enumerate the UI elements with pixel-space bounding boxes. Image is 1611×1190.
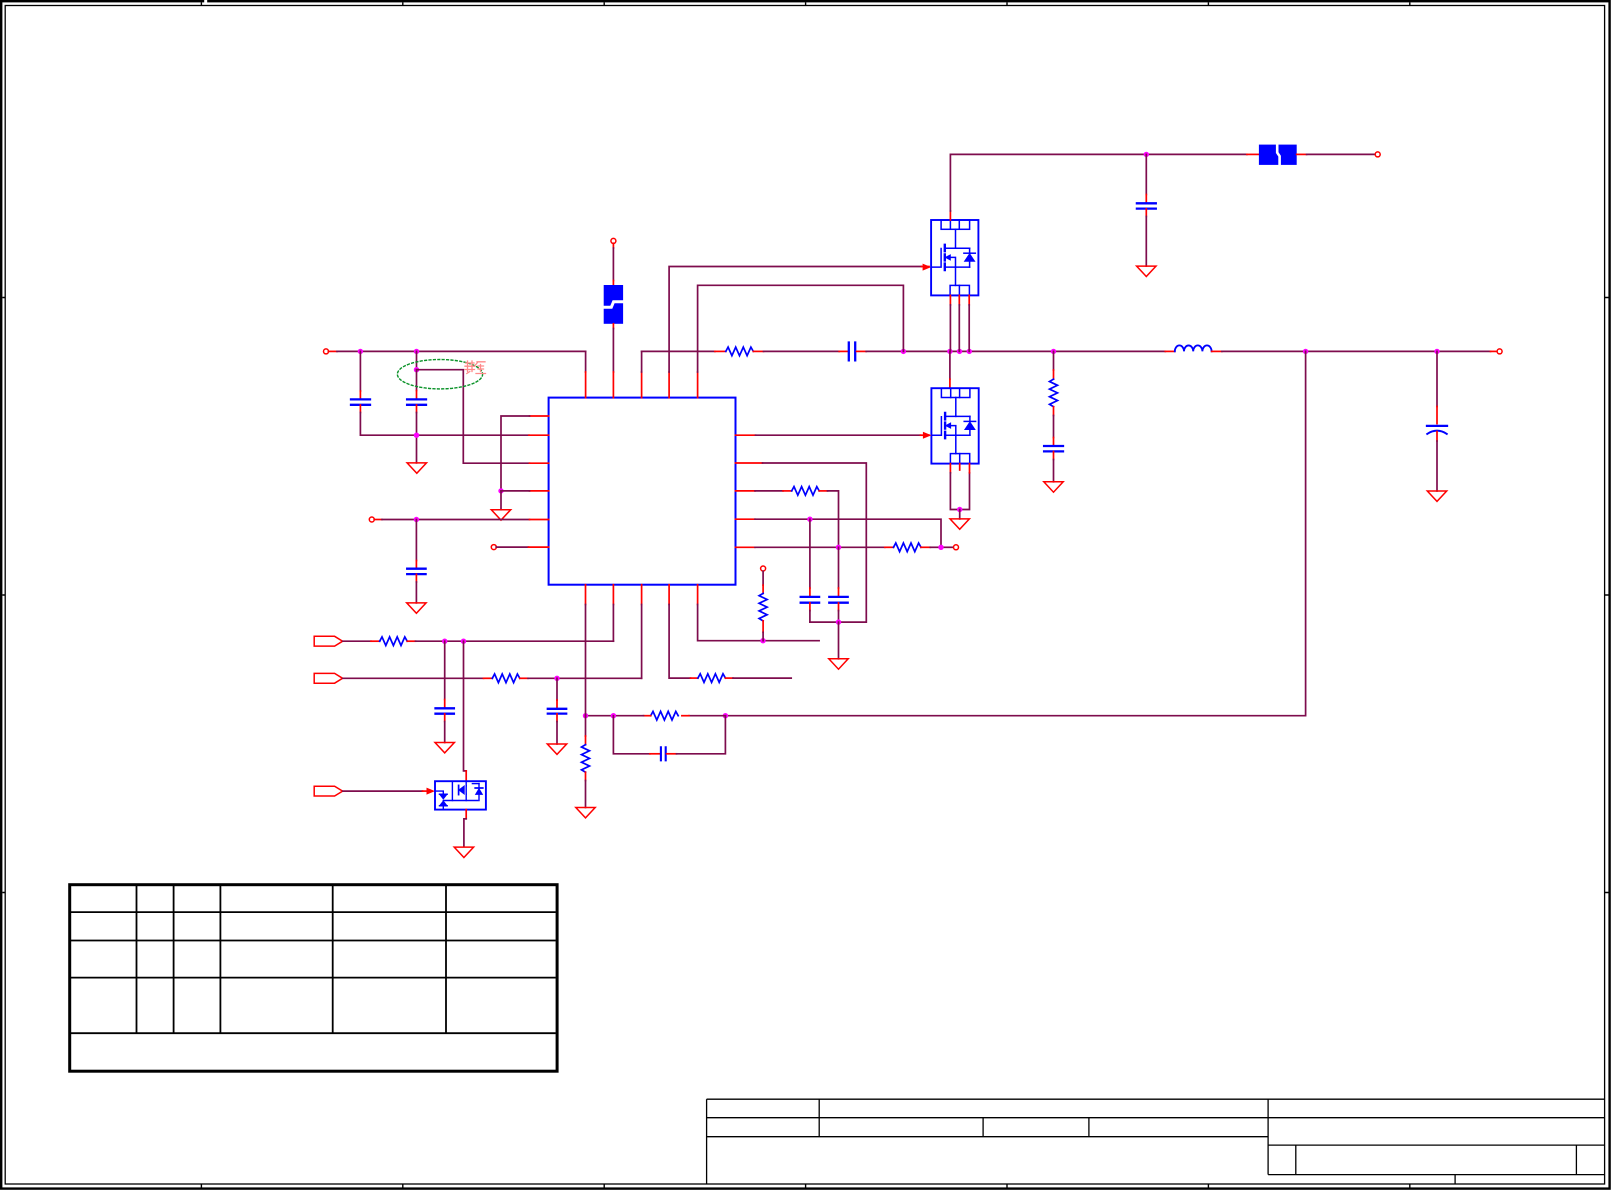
resistor R24 (feedback, horizontal): [651, 711, 679, 720]
wire Q1 drain top: [949, 211, 951, 220]
TITLE BLOCK (bottom right, empty): [707, 1099, 1605, 1184]
port P2 (circle above fuse): [611, 238, 616, 243]
node junction (501,490.9): [498, 488, 503, 493]
port PA2 (arrow input): [314, 673, 342, 683]
wire junction to cap C2 top: [416, 370, 418, 391]
wire cap C3 lower lead: [1145, 209, 1147, 217]
capacitor C22 (polarized output): [1427, 425, 1447, 427]
white notch in outer border top: [204, 0, 207, 3]
resistor R25 (lower divider, vertical): [582, 745, 590, 773]
wire R29 to SS line: [762, 621, 764, 632]
capacitor C26 (feed-forward, series): [661, 747, 666, 760]
wire R28 stub end: [725, 677, 733, 679]
wire IC gate pin to Q2 (y=435.2): [736, 434, 756, 436]
wire IC pin y=519.2 over and down: [736, 518, 756, 520]
wire into fuse F2: [1247, 153, 1259, 155]
ground G2: [1137, 266, 1156, 276]
node junction (941,547.3): [938, 545, 943, 550]
wire cap C25 leads (x=838.5): [838, 547, 840, 588]
wire FB junction down to R25: [585, 716, 587, 736]
port P6 (circle): [954, 545, 959, 550]
red arrow into Q2 gate: [923, 432, 932, 439]
node junction (416.5,369.7): [414, 367, 419, 372]
top zone ticks: [201, 2, 1409, 5]
transistor Q1 (dual-pack MOSFET): [931, 220, 978, 295]
wire P5 to R29: [762, 571, 764, 585]
wire C20 to SW junction and Q stacks: [857, 350, 867, 352]
wire C22 lower lead to ground: [1436, 432, 1438, 442]
wire cap C27 leads (x=444.7): [444, 641, 446, 699]
wire bypass route to IC pin3: [417, 370, 530, 464]
ground G9: [829, 659, 848, 669]
node junction (613.4,715.7): [611, 713, 616, 718]
node junction (416.4,519.5): [414, 517, 419, 522]
wire cap C1 lower lead + line to IC pin2: [359, 405, 361, 413]
wire cap C24 leads (x=809.9): [809, 519, 811, 588]
ground G4: [1044, 482, 1063, 492]
wire IC pin x=613.4 down to EN line: [612, 585, 614, 605]
fuse F1 (vertical blue body): [604, 285, 623, 324]
wire IC pin x=669.1 down to RT line: [668, 585, 670, 605]
wire bus down to Q2 drain: [949, 351, 951, 379]
node junction (969.3,351.4): [967, 349, 972, 354]
port PA3 (arrow input): [314, 786, 342, 796]
resistor R28: [698, 674, 726, 683]
wire IC pin y=490.9: [530, 490, 549, 492]
node junction (725.4,715.7): [723, 713, 728, 718]
wire bus down to R21: [1053, 351, 1055, 370]
wire VCC loop pin x=697.6 up and over to SW: [697, 372, 699, 398]
wire junction to ground G10: [500, 491, 502, 510]
node junction (585.5,715.7): [583, 713, 588, 718]
capacitor C29: [407, 569, 425, 574]
wire cap C1 upper lead: [359, 351, 361, 391]
note ellipse (place close): [397, 360, 482, 389]
wire fuse to IC pin top x=613.4: [612, 324, 614, 329]
wire R27 to IC pin: [520, 677, 528, 679]
port P5 (circle above R29): [761, 566, 766, 571]
node junction (903.4,351.4): [901, 349, 906, 354]
wire input bus y=351.4 left segment: [328, 350, 337, 352]
wire Q1 source pins down to bus: [949, 295, 951, 305]
port P7 (circle left): [369, 517, 374, 522]
node junction (1146.3,154.4): [1144, 152, 1149, 157]
wire P2 to fuse: [612, 243, 614, 248]
wire feedback vertical from SW bus output node: [728, 351, 1306, 715]
resistor R22: [792, 487, 820, 496]
capacitor C2: [407, 399, 426, 404]
wire IC FB pin (x=585.5) down: [585, 585, 587, 605]
node junction (360.4,351.4): [358, 349, 363, 354]
port P1 (input terminal circle): [324, 349, 329, 354]
capacitor C3: [1137, 203, 1156, 208]
capacitor C1: [351, 399, 370, 404]
wire IC pin y=416 over and down to ground: [530, 415, 549, 417]
wire cap C3 upper lead: [1145, 154, 1147, 194]
node junction (463.5,641.2): [461, 639, 466, 644]
wire L1 to output port: [1212, 350, 1222, 352]
node junction (416.5,351.4): [414, 349, 419, 354]
capacitor C20 (bootstrap, series plates): [849, 343, 855, 361]
wire IC pin y=490.9 to R22: [736, 490, 756, 492]
capacitor C24: [801, 597, 819, 603]
node junction (416.5,435.2): [414, 433, 419, 438]
wire cap C2 upper lead: [416, 351, 418, 369]
port PA1 (arrow input EN): [314, 636, 342, 646]
wire IC pin x=697.6 down to SS line: [697, 585, 699, 605]
diode pack D1 (ESD array): [435, 781, 486, 809]
REVISION TABLE (bottom left, empty): [70, 885, 557, 1071]
wire C21 to ground: [1053, 452, 1055, 460]
node junction (1053.5,351.4): [1051, 349, 1056, 354]
node junction (959.5,351.4): [957, 349, 962, 354]
wire R23 to node and port: [921, 546, 930, 548]
wire R24 to FB junctions: [644, 715, 651, 717]
note text marks: [465, 361, 486, 374]
red arrow into ESD pack: [427, 788, 436, 795]
wire R22 down to y=547.3: [819, 490, 827, 492]
port P3 (output terminal circle right): [1497, 349, 1502, 354]
wire R20 to C20: [753, 350, 763, 352]
wire cap C29 leads (x=416.4): [415, 520, 417, 561]
red arrow into Q1 gate: [923, 264, 932, 271]
wire R21 to C21: [1053, 407, 1055, 416]
capacitor C25: [829, 597, 847, 603]
ground G1: [407, 463, 426, 473]
resistor R20 (bootstrap, series): [726, 347, 754, 356]
node junction (1437,351.4): [1434, 349, 1439, 354]
wire F2 to port P4: [1297, 153, 1307, 155]
wire P8 to IC pin y=547.1: [496, 546, 528, 548]
resistor R26: [380, 637, 408, 646]
wire IC pin y=547.3 to R23: [736, 546, 756, 548]
inductor L1: [1175, 345, 1212, 351]
wire bus y=351.4 : BST to R20: [642, 350, 715, 352]
ground G8: [547, 744, 566, 754]
right zone ticks: [1605, 298, 1609, 893]
wire PA3 to ESD pack: [343, 790, 423, 792]
fuse F2 (horizontal blue body): [1259, 145, 1297, 165]
wire IC pin y=463 to decoupling loop: [736, 462, 763, 464]
node junction (557,678.3): [554, 676, 559, 681]
wire IC pin BST (x=641.6) up to bus: [641, 372, 643, 398]
wire R26 to IC pin: [407, 640, 415, 642]
IC U1 body: [549, 398, 736, 585]
wire cap C2 lower lead: [416, 405, 418, 413]
wire feed-forward cap loop: [613, 716, 650, 754]
node junction (444.7,641.2): [442, 639, 447, 644]
wire junction to ground G9: [838, 622, 840, 659]
wire R25 to ground: [585, 772, 587, 780]
node junction (1305.6,351.4): [1303, 349, 1308, 354]
resistor R21 (snubber): [1050, 379, 1058, 407]
bottom zone ticks: [201, 1184, 1409, 1188]
port P8 (circle left near IC): [491, 545, 496, 550]
wire Q2 source pins to ground: [949, 464, 951, 473]
left zone ticks: [2, 298, 5, 893]
node junction (959.7,509.5): [957, 507, 962, 512]
port P4 (output circle top right): [1375, 152, 1380, 157]
wire bus to L1: [1165, 350, 1175, 352]
wire output cap C22 upper lead: [1436, 351, 1438, 406]
transistor Q2 (dual-pack MOSFET): [931, 388, 978, 463]
wire FB node to R24: [689, 715, 725, 717]
wire PA1 to R26: [343, 640, 371, 642]
capacitor C27: [436, 708, 454, 713]
node junction (763,640.7): [760, 638, 765, 643]
wire P7 to IC pin y=519.5: [374, 519, 382, 521]
ground G5: [1427, 491, 1446, 501]
ground G12: [454, 847, 473, 857]
node junction (838.5,547.3): [836, 545, 841, 550]
wire IC pin x=641.6 down to SYNC line: [641, 585, 643, 605]
wire PA2 to R27: [343, 677, 484, 679]
wire ESD pack to ground: [465, 810, 467, 819]
ground G11: [407, 603, 426, 613]
node junction (838.5,622.1): [836, 619, 841, 624]
capacitor C21 (snubber): [1044, 446, 1063, 451]
resistor R27: [492, 674, 520, 683]
wire cap C28 leads (x=557): [556, 678, 558, 700]
wire gate drive to Q1 (y=266.5): [668, 372, 670, 398]
capacitor C28: [548, 709, 566, 714]
ground G3: [950, 519, 969, 529]
resistor R29 (vertical): [759, 593, 767, 621]
node junction (809.9,519.2): [807, 517, 812, 522]
ground G7: [435, 743, 454, 753]
wire ESD feed (x=463.5 down): [464, 641, 467, 771]
ground G6: [576, 808, 595, 818]
ground G10: [491, 510, 510, 520]
wire junction to ground G3: [959, 510, 961, 519]
wire IC pin VIN top (x=585.6): [585, 351, 587, 372]
node junction (949.9,351.4): [947, 349, 952, 354]
resistor R23: [894, 543, 922, 552]
